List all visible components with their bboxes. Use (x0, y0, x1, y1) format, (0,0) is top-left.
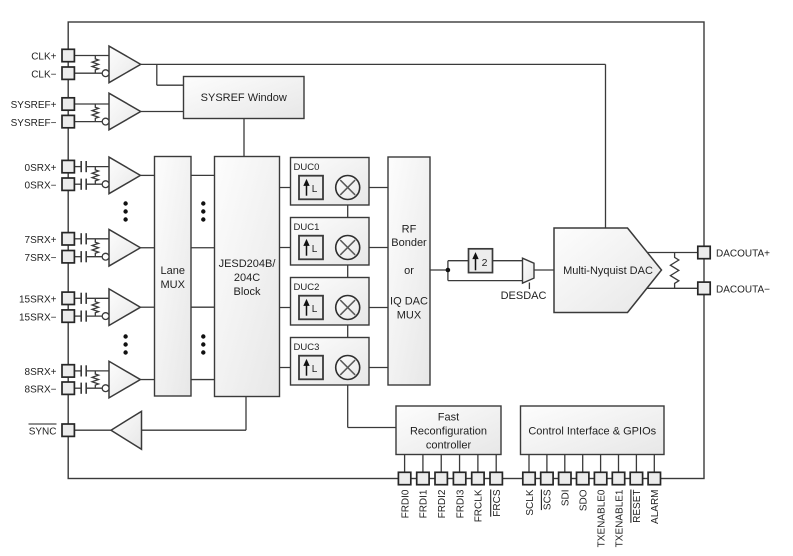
svg-text:FRCLK: FRCLK (474, 489, 485, 522)
svg-text:Bonder: Bonder (391, 237, 427, 249)
svg-text:CLK−: CLK− (31, 69, 56, 80)
svg-text:15SRX−: 15SRX− (19, 312, 57, 323)
svg-text:TXENABLE0: TXENABLE0 (596, 489, 607, 547)
svg-text:DESDAC: DESDAC (501, 290, 547, 302)
svg-text:0SRX+: 0SRX+ (25, 163, 57, 174)
svg-text:DUC3: DUC3 (294, 342, 320, 353)
svg-text:DUC0: DUC0 (294, 162, 320, 173)
svg-text:SDO: SDO (579, 489, 590, 511)
svg-text:RF: RF (402, 224, 417, 236)
svg-text:DUC1: DUC1 (294, 222, 320, 233)
svg-text:controller: controller (426, 440, 472, 452)
svg-text:7SRX−: 7SRX− (25, 253, 57, 264)
svg-text:SYSREF Window: SYSREF Window (201, 92, 287, 104)
svg-text:MUX: MUX (161, 279, 186, 291)
svg-text:FRDI3: FRDI3 (455, 489, 466, 518)
svg-text:L: L (312, 304, 318, 315)
svg-text:JESD204B/: JESD204B/ (219, 258, 277, 270)
svg-text:0SRX−: 0SRX− (25, 180, 57, 191)
svg-text:FRDI0: FRDI0 (400, 489, 411, 518)
svg-text:8SRX+: 8SRX+ (25, 367, 57, 378)
svg-text:Block: Block (234, 286, 261, 298)
svg-text:7SRX+: 7SRX+ (25, 235, 57, 246)
svg-text:204C: 204C (234, 272, 260, 284)
svg-text:IQ DAC: IQ DAC (390, 296, 428, 308)
svg-text:Control Interface & GPIOs: Control Interface & GPIOs (528, 426, 656, 438)
svg-text:SYNC: SYNC (29, 426, 57, 437)
svg-text:SCLK: SCLK (525, 489, 536, 515)
svg-text:ALARM: ALARM (650, 490, 661, 524)
svg-text:L: L (312, 364, 318, 375)
svg-text:DUC2: DUC2 (294, 282, 320, 293)
svg-text:Fast: Fast (438, 412, 459, 424)
svg-text:SCS: SCS (543, 489, 554, 510)
svg-text:SYSREF−: SYSREF− (11, 118, 57, 129)
svg-text:RESET: RESET (632, 490, 643, 523)
svg-text:15SRX+: 15SRX+ (19, 295, 57, 306)
svg-text:2: 2 (482, 257, 488, 269)
svg-text:TXENABLE1: TXENABLE1 (614, 489, 625, 547)
svg-text:Multi-Nyquist DAC: Multi-Nyquist DAC (563, 265, 653, 277)
svg-text:SYSREF+: SYSREF+ (11, 100, 57, 111)
svg-text:DACOUTA+: DACOUTA+ (716, 249, 770, 260)
svg-text:Reconfiguration: Reconfiguration (410, 426, 487, 438)
svg-text:CLK+: CLK+ (31, 52, 56, 63)
svg-text:FRDI2: FRDI2 (437, 489, 448, 518)
svg-text:8SRX−: 8SRX− (25, 384, 57, 395)
svg-text:or: or (404, 265, 414, 277)
svg-text:L: L (312, 244, 318, 255)
svg-text:FRDI1: FRDI1 (419, 489, 430, 518)
svg-text:MUX: MUX (397, 310, 422, 322)
svg-text:L: L (312, 184, 318, 195)
svg-text:FRCS: FRCS (492, 489, 503, 517)
svg-text:SDI: SDI (561, 490, 572, 507)
svg-text:Lane: Lane (161, 265, 185, 277)
svg-text:DACOUTA−: DACOUTA− (716, 284, 770, 295)
